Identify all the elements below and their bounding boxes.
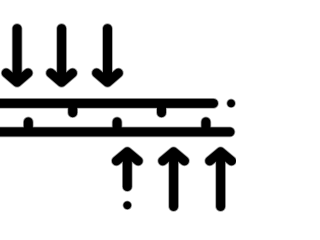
pressure / compression icon (0, 0, 236, 236)
up arrow 2 shaft (169, 156, 178, 207)
lower plate nub B (up) (113, 122, 122, 131)
up arrow 2 head (163, 152, 185, 161)
up arrow 3 shaft (216, 156, 225, 207)
lower plate nub A (up) (24, 122, 33, 131)
down arrow 2 head (51, 73, 73, 82)
upper plate nub A (down) (68, 104, 77, 113)
down arrow 3 shaft (103, 29, 112, 79)
lower plate line (0, 127, 230, 136)
down arrow 1 head (6, 73, 28, 82)
up arrow 1 trailing dot (123, 201, 131, 209)
soft antialias under-layer (0, 29, 236, 210)
up arrow 1 short shaft (123, 156, 132, 187)
down arrow 2 shaft (57, 29, 66, 79)
upper plate trailing dot (227, 99, 235, 107)
upper plate line (0, 99, 214, 108)
down arrow 1 shaft (13, 29, 22, 79)
up arrow 3 head (210, 152, 232, 161)
down arrow 3 head (97, 73, 119, 82)
up arrow 1 head (116, 152, 138, 161)
upper plate nub B (down) (157, 104, 166, 113)
lower plate nub C (up) (201, 122, 210, 131)
